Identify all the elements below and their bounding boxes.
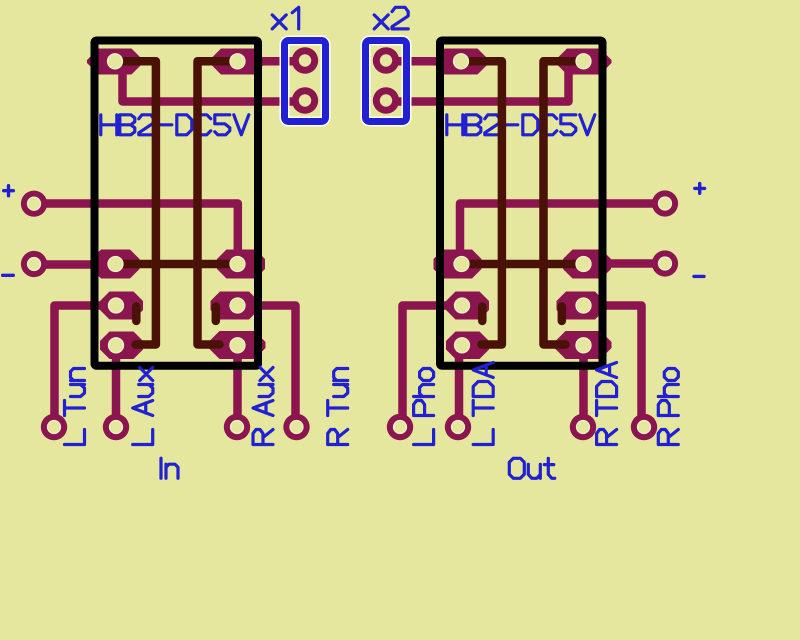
pad L Tun <box>41 414 67 440</box>
connector X2 outline <box>366 41 407 122</box>
stub K2 row2 left (bottom layer) <box>478 307 487 322</box>
wire K1 coil pad1 to X1 pin2 <box>123 68 306 102</box>
K2 coil pad1 hole <box>454 54 469 69</box>
hole - left <box>28 258 41 271</box>
hole + left <box>28 197 41 210</box>
K1 contact pad row3 left <box>100 332 143 360</box>
label HB2-DC5V (relay K1 name) <box>101 115 249 135</box>
pad - supply left <box>21 251 47 277</box>
K2 row2 right hole <box>576 298 591 313</box>
label R TDA <box>597 363 617 445</box>
wire K1 coil1 to row3 left (bottom layer) <box>123 61 156 344</box>
wire K2 row1 left-right (bottom layer) <box>469 260 577 269</box>
pad L Pho <box>387 414 413 440</box>
label + right <box>695 184 705 194</box>
wire K1 row3 right to pad R Aux <box>233 345 242 424</box>
K1 row1 right hole <box>230 257 245 272</box>
wire K2 row2 left to pad L Pho <box>403 306 467 425</box>
wire K1 coil pad2 to X1 pin1 <box>250 57 305 66</box>
pad L TDA <box>445 414 471 440</box>
wire K2 row2 right to pad R Pho <box>580 306 642 425</box>
connector X1 outline halo <box>285 41 326 122</box>
wire X2 pin1 to K2 coil pad1 <box>387 57 438 66</box>
label L Aux <box>133 368 153 445</box>
wire - right to K2 row1 right pad <box>600 259 665 268</box>
pad R TDA <box>570 414 596 440</box>
hole + right <box>659 197 672 210</box>
K1 contact pad row1 right <box>217 250 265 279</box>
hole R Tun <box>290 421 303 434</box>
hole - right <box>659 257 672 270</box>
K2 contact pad row2 right <box>557 292 605 320</box>
K2 row2 left hole <box>455 298 470 313</box>
label L TDA <box>473 363 493 445</box>
pad R Aux <box>224 414 250 440</box>
hole R Aux <box>231 421 244 434</box>
hole R Pho <box>638 421 651 434</box>
pad R Tun <box>283 414 309 440</box>
wire X2 pin2 to K2 coil pad2 <box>387 72 569 102</box>
connector X2 outline halo <box>366 41 407 122</box>
K2 row1 left hole <box>454 257 469 272</box>
K2 contact pad row2 left <box>446 292 489 320</box>
wire K1 row3 left to pad L Aux <box>112 345 121 424</box>
K2 contact pad row1 left <box>434 250 482 279</box>
connector X1 outline <box>285 41 326 122</box>
K1 coil pad1 hole <box>108 54 123 69</box>
stub K1 row2 left (bottom layer) <box>132 307 141 322</box>
K1 row3 right hole <box>230 338 245 353</box>
wire K2 coil2 to row3 right (bottom layer) <box>544 61 577 344</box>
K2 coil pad 1 <box>433 49 489 75</box>
hole L Aux <box>110 421 123 434</box>
wire + right to K2 row1 left pad <box>460 204 665 261</box>
connector X2 pin 1 <box>373 47 399 73</box>
K1 contact pad row2 right <box>211 292 259 320</box>
K1 row2 right hole <box>230 298 245 313</box>
K2 row3 right hole <box>576 338 591 353</box>
wire K1 row2 right to pad R Tun <box>234 306 296 425</box>
label R Pho <box>658 369 678 445</box>
K2 row1 right hole <box>576 257 591 272</box>
K2 coil pad2 hole <box>576 54 591 69</box>
K2 contact pad row3 left <box>446 332 489 360</box>
pad - supply right <box>652 250 678 276</box>
K1 row3 left hole <box>109 338 124 353</box>
pad R Pho <box>631 414 657 440</box>
label x2 <box>374 7 408 29</box>
label Out <box>509 458 555 478</box>
label + left <box>4 186 14 196</box>
label L Tun <box>65 369 85 445</box>
wire K2 row3 left to pad L TDA <box>459 345 462 424</box>
hole L TDA <box>452 421 465 434</box>
K1 row1 left hole <box>108 257 123 272</box>
label R Aux <box>253 368 273 445</box>
connector X1 pin 1 <box>292 47 318 73</box>
hole L Tun <box>48 421 61 434</box>
wire K1 row1 left-right (bottom layer) <box>123 260 231 269</box>
K1 contact pad row1 left <box>92 250 140 279</box>
K1 coil pad 2 <box>210 49 266 75</box>
K2 row3 left hole <box>455 338 470 353</box>
connector X2 pin 2 <box>373 87 399 113</box>
wire K1 coil2 to row3 right (bottom layer) <box>198 61 231 344</box>
K1 coil pad 1 <box>87 49 143 75</box>
wire K1 row2 left to pad L Tun <box>55 306 121 425</box>
hole R TDA <box>577 421 590 434</box>
K2 coil pad 2 <box>556 49 612 75</box>
stub K2 row2 right (bottom layer) <box>558 307 567 322</box>
stub K1 row2 right (bottom layer) <box>212 307 221 322</box>
K1 row2 left hole <box>109 298 124 313</box>
relay K2 outline <box>440 41 603 366</box>
connector X1 pin 2 <box>292 87 318 113</box>
wire + left to K1 row1 right pad <box>34 204 238 261</box>
label x1 <box>272 7 299 29</box>
pad L Aux <box>103 414 129 440</box>
relay K1 outline <box>95 41 259 366</box>
wire K2 row3 right to pad R TDA <box>579 345 588 424</box>
label - left <box>3 274 14 277</box>
label L Pho <box>414 369 434 445</box>
wire - left to K1 row1 left pad <box>34 260 110 269</box>
pad + supply right <box>652 190 678 216</box>
label In <box>161 458 178 478</box>
K1 contact pad row2 left <box>100 292 143 320</box>
label HB2-DC5V (relay K2 name) <box>447 115 595 135</box>
label - right <box>694 275 704 278</box>
K2 contact pad row1 right <box>563 250 611 279</box>
K2 contact pad row3 right <box>555 331 612 359</box>
wire K2 coil1 to row3 left (bottom layer) <box>469 61 502 344</box>
label R Tun <box>328 369 348 445</box>
pad + supply left <box>21 191 47 217</box>
K1 contact pad row3 right <box>209 331 266 359</box>
K1 coil pad2 hole <box>230 54 245 69</box>
hole L Pho <box>394 421 407 434</box>
